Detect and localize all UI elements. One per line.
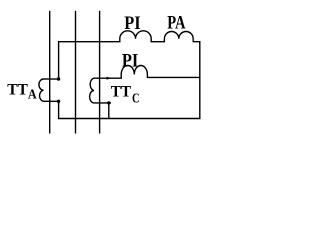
junction dot TTA bottom: [57, 100, 60, 103]
TTA bottom tap: [44, 100, 59, 102]
transformer TTA secondary arcs: [39, 79, 44, 101]
bus phase B: [75, 11, 77, 134]
svg-text:TT: TT: [7, 81, 28, 98]
junction dot TTC bottom: [107, 101, 110, 104]
transformer TTC secondary arcs: [90, 78, 94, 103]
svg-text:A: A: [28, 87, 37, 102]
junction dot TTA top: [57, 77, 60, 80]
TTC bottom tap: [94, 102, 111, 104]
svg-text:PA: PA: [167, 14, 186, 34]
TTC return wire down: [108, 103, 110, 119]
TTA top tap: [44, 78, 59, 80]
svg-text:C: C: [132, 92, 140, 107]
bus phase A: [49, 11, 51, 134]
wire middle with coil PI: [94, 66, 200, 79]
svg-text:PI: PI: [124, 14, 140, 34]
svg-text:TT: TT: [111, 84, 132, 101]
wire top loop with coils PI PA and right/bottom return: [59, 31, 200, 119]
svg-text:PI: PI: [122, 52, 138, 72]
bus phase C: [99, 11, 101, 134]
current arrow on TTC top lead: [107, 77, 111, 80]
